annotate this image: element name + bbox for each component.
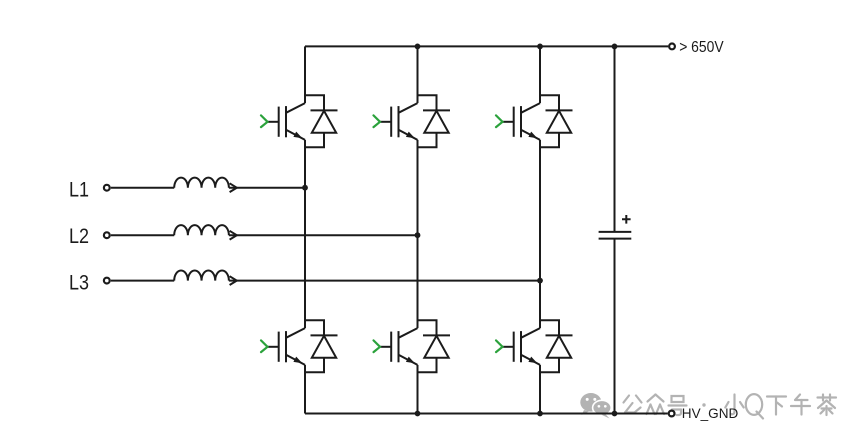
svg-text:L3: L3 [69, 271, 89, 295]
svg-text:HV_GND: HV_GND [682, 406, 739, 421]
svg-text:L1: L1 [69, 177, 89, 201]
svg-text:L2: L2 [69, 224, 89, 248]
svg-text:> 650V: > 650V [679, 39, 724, 56]
